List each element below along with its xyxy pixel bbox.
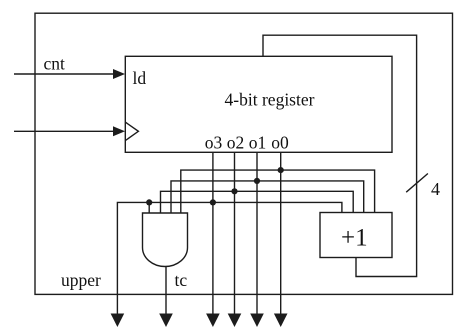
wire and-gate input stub (148, 202, 150, 213)
wire feedback +1 output to register input (263, 35, 417, 276)
arrowhead clk (113, 126, 125, 136)
wire o1 branch horizontal (171, 181, 364, 213)
wire o3 vertical (212, 152, 214, 314)
wire tc output (165, 267, 167, 315)
node junction o1 (254, 178, 260, 184)
svg-text:upper: upper (61, 270, 101, 290)
bus width slash (406, 174, 428, 193)
arrowhead o1 (250, 314, 264, 328)
node junction o3 (210, 199, 216, 205)
svg-text:o0: o0 (271, 133, 289, 153)
module border (upper) (35, 13, 453, 294)
arrowhead o0 (274, 314, 288, 328)
node junction o2 (231, 188, 237, 194)
svg-text:cnt: cnt (44, 54, 66, 74)
clock edge triangle (125, 122, 138, 141)
wire o1 vertical (256, 152, 258, 314)
arrowhead o3 (206, 314, 220, 328)
arrowhead out1 (111, 314, 125, 328)
svg-text:o3: o3 (205, 133, 223, 153)
arrowhead o2 (228, 314, 242, 328)
arrowhead tc (159, 314, 173, 328)
wire cnt input (14, 73, 114, 75)
wire o3 branch horizontal (117, 202, 342, 314)
wire o2 branch horizontal (161, 191, 354, 213)
wire clk input (14, 130, 114, 132)
and-gate AND1 (143, 213, 188, 267)
wire o2 vertical (234, 152, 236, 314)
svg-text:4-bit register: 4-bit register (225, 90, 315, 110)
svg-text:4: 4 (431, 179, 440, 199)
wire o0 vertical (280, 152, 282, 314)
node junction and-input (146, 199, 152, 205)
svg-text:o2: o2 (227, 133, 245, 153)
node junction o0 (278, 167, 284, 173)
arrowhead cnt (113, 69, 125, 79)
incrementer +1 box (320, 213, 392, 258)
svg-text:tc: tc (175, 270, 188, 290)
svg-text:o1: o1 (249, 133, 267, 153)
svg-text:ld: ld (133, 68, 147, 88)
wire o0 branch horizontal (181, 170, 375, 213)
4-bit register box (125, 56, 392, 152)
svg-text:+1: +1 (341, 225, 368, 252)
